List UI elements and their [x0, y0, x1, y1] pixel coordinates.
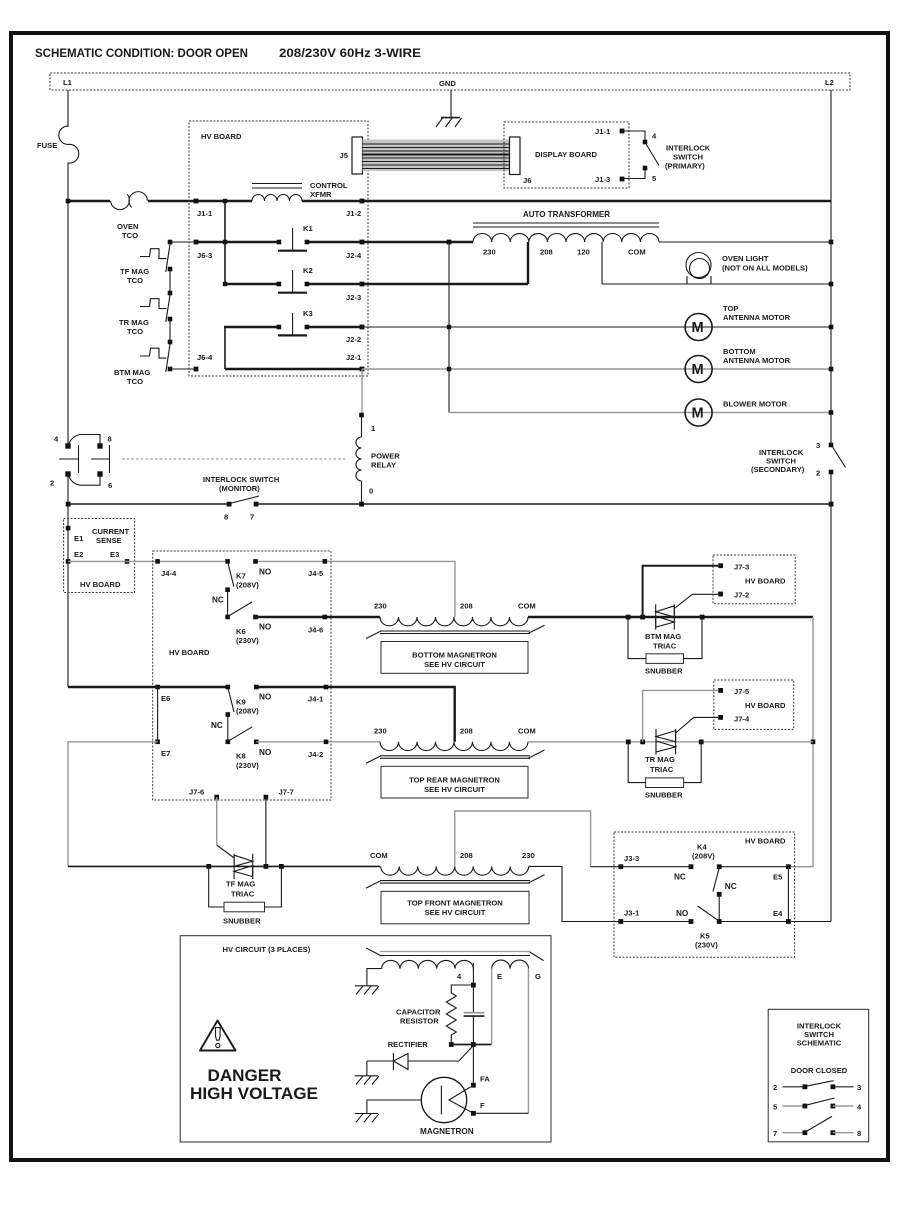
- svg-text:TCO: TCO: [127, 276, 143, 285]
- svg-text:BTM MAG: BTM MAG: [114, 368, 150, 377]
- svg-text:8: 8: [224, 513, 228, 522]
- svg-text:J7-3: J7-3: [734, 563, 749, 572]
- svg-text:8: 8: [108, 435, 112, 444]
- interlock switch (primary): [622, 131, 645, 179]
- svg-text:230: 230: [483, 248, 496, 257]
- snubber (TF): [209, 866, 282, 907]
- wire left vertical k-bus: [224, 201, 226, 284]
- svg-text:E7: E7: [161, 749, 170, 758]
- svg-text:NO: NO: [259, 748, 272, 757]
- svg-text:NO: NO: [259, 623, 272, 632]
- connector J5: [352, 137, 363, 174]
- HV transformer core: [366, 948, 543, 961]
- svg-text:RELAY: RELAY: [371, 461, 396, 470]
- pin J2-3: [360, 282, 365, 287]
- svg-text:NO: NO: [676, 909, 689, 918]
- svg-text:HV BOARD: HV BOARD: [169, 648, 210, 657]
- pin J2-4: [360, 240, 365, 245]
- wire 208 tap down: [527, 242, 529, 284]
- wire J7-7 link: [265, 797, 267, 866]
- svg-text:(MONITOR): (MONITOR): [219, 484, 260, 493]
- wire L1 drop: [67, 90, 69, 127]
- pin F: [473, 1112, 528, 1114]
- svg-text:NC: NC: [212, 596, 224, 605]
- svg-text:J2-3: J2-3: [346, 293, 361, 302]
- svg-text:TR MAG: TR MAG: [645, 755, 675, 764]
- relay K7: [225, 559, 230, 564]
- svg-text:NC: NC: [211, 721, 223, 730]
- svg-text:E4: E4: [773, 909, 783, 918]
- HV board box J7-5/J7-4: [714, 680, 794, 729]
- interlock switch (monitor) on 504 line: [68, 503, 831, 505]
- svg-text:J7-5: J7-5: [734, 687, 750, 696]
- svg-text:TRIAC: TRIAC: [650, 765, 674, 774]
- svg-text:J7-6: J7-6: [189, 788, 204, 797]
- svg-text:J6-4: J6-4: [197, 353, 213, 362]
- svg-text:J7-2: J7-2: [734, 591, 749, 600]
- svg-text:COM: COM: [370, 851, 388, 860]
- top front magnetron transformer coil: [381, 866, 529, 875]
- wire COM line TR: [528, 741, 813, 743]
- svg-text:J7-7: J7-7: [279, 788, 294, 797]
- svg-text:0: 0: [369, 487, 373, 496]
- svg-text:K1: K1: [303, 224, 313, 233]
- magnetron V1: [421, 1077, 466, 1122]
- top rear magnetron transformer coil: [380, 742, 528, 751]
- svg-text:J1-1: J1-1: [595, 127, 611, 136]
- display board box: [504, 122, 629, 188]
- pin J7-6: [214, 795, 219, 800]
- svg-text:SEE HV CIRCUIT: SEE HV CIRCUIT: [425, 908, 486, 917]
- svg-text:J4-1: J4-1: [308, 695, 324, 704]
- HV secondary coil: [382, 960, 474, 968]
- wire J2-4 feed vertical: [448, 242, 450, 413]
- interlock switch (monitor section 4-8-2-6): [65, 443, 70, 448]
- svg-text:NO: NO: [259, 568, 272, 577]
- svg-text:COM: COM: [518, 727, 536, 736]
- svg-text:CAPACITOR: CAPACITOR: [396, 1008, 441, 1017]
- wire G filament drop: [527, 969, 529, 1114]
- pin J2-1: [360, 367, 365, 372]
- top front magnetron label box: [381, 891, 529, 924]
- motor bottom antenna: [685, 356, 712, 383]
- pin J2-2: [360, 325, 365, 330]
- svg-text:HV BOARD: HV BOARD: [745, 837, 786, 846]
- wire J7-6 gate link: [216, 797, 218, 845]
- wire junction to E: [451, 1044, 491, 1046]
- svg-text:M: M: [692, 406, 704, 422]
- svg-text:TR MAG: TR MAG: [119, 318, 149, 327]
- wire terminal 4 drop: [472, 963, 474, 985]
- snubber (BTM): [628, 617, 702, 659]
- svg-text:TCO: TCO: [127, 327, 143, 336]
- svg-text:230: 230: [374, 727, 387, 736]
- wire oven light line: [602, 283, 831, 285]
- svg-text:TCO: TCO: [127, 377, 143, 386]
- svg-text:J4-4: J4-4: [161, 569, 177, 578]
- svg-text:HIGH VOLTAGE: HIGH VOLTAGE: [190, 1085, 318, 1103]
- svg-text:SWITCH: SWITCH: [673, 153, 703, 162]
- wire J3-3 line: [591, 866, 691, 868]
- svg-text:CURRENT: CURRENT: [92, 527, 129, 536]
- wire secondary left to ground: [367, 969, 382, 986]
- svg-text:J6-3: J6-3: [197, 251, 212, 260]
- BTM MAG TCO: [140, 348, 167, 358]
- svg-text:J4-5: J4-5: [308, 569, 324, 578]
- ground (magnetron): [355, 1114, 379, 1123]
- triac BTM MAG: [656, 604, 675, 629]
- svg-text:8: 8: [857, 1129, 861, 1138]
- svg-text:230: 230: [374, 602, 387, 611]
- pin E5: [786, 864, 791, 869]
- svg-text:K3: K3: [303, 309, 313, 318]
- snubber (TR): [628, 742, 701, 783]
- svg-text:K2: K2: [303, 266, 313, 275]
- svg-text:SNUBBER: SNUBBER: [645, 791, 683, 800]
- svg-text:TRIAC: TRIAC: [653, 642, 677, 651]
- svg-text:6: 6: [108, 481, 112, 490]
- svg-text:120: 120: [577, 248, 590, 257]
- svg-text:K8: K8: [236, 752, 246, 761]
- svg-text:(208V): (208V): [236, 581, 259, 590]
- wire COM to L2: [659, 241, 831, 243]
- pin J4-4: [155, 559, 160, 564]
- svg-text:TCO: TCO: [122, 231, 138, 240]
- svg-text:BTM MAG: BTM MAG: [645, 632, 681, 641]
- svg-text:230: 230: [522, 851, 535, 860]
- svg-text:SCHEMATIC CONDITION: DOOR OPEN: SCHEMATIC CONDITION: DOOR OPEN: [35, 46, 248, 60]
- filament winding: [492, 960, 529, 969]
- svg-text:HV BOARD: HV BOARD: [745, 701, 786, 710]
- wire power relay drop: [361, 369, 363, 415]
- svg-text:208: 208: [460, 851, 473, 860]
- svg-text:BOTTOM: BOTTOM: [723, 347, 756, 356]
- top rear magnetron label box: [381, 766, 528, 798]
- HV board box K4/K5: [614, 832, 795, 957]
- svg-text:TRIAC: TRIAC: [231, 890, 255, 899]
- relay K5: [717, 919, 722, 924]
- svg-text:K9: K9: [236, 698, 246, 707]
- svg-text:NC: NC: [725, 882, 737, 891]
- svg-text:OVEN LIGHT: OVEN LIGHT: [722, 254, 769, 263]
- svg-text:(SECONDARY): (SECONDARY): [751, 465, 805, 474]
- wire E7 return: [68, 742, 158, 867]
- svg-text:BLOWER MOTOR: BLOWER MOTOR: [723, 400, 787, 409]
- svg-text:ANTENNA MOTOR: ANTENNA MOTOR: [723, 356, 791, 365]
- svg-text:J2-4: J2-4: [346, 251, 362, 260]
- control transformer core: [252, 184, 302, 189]
- wire 208 tap to J3-3: [455, 811, 591, 867]
- svg-text:NC: NC: [674, 873, 686, 882]
- svg-text:TF MAG: TF MAG: [226, 880, 255, 889]
- HV board box (top): [189, 121, 368, 376]
- ground (chassis): [441, 117, 460, 119]
- current sense box: [64, 519, 135, 593]
- wire E5-E4: [787, 867, 789, 922]
- svg-text:SCHEMATIC: SCHEMATIC: [797, 1039, 842, 1048]
- svg-text:L1: L1: [63, 78, 73, 87]
- svg-text:J1-1: J1-1: [197, 209, 213, 218]
- ground (rectifier): [366, 1061, 368, 1076]
- svg-text:COM: COM: [628, 248, 646, 257]
- svg-text:XFMR: XFMR: [310, 190, 332, 199]
- wire J7-5 link: [643, 690, 718, 741]
- svg-text:(NOT ON ALL MODELS): (NOT ON ALL MODELS): [722, 264, 808, 273]
- svg-text:J6: J6: [523, 176, 531, 185]
- svg-text:HV BOARD: HV BOARD: [201, 132, 242, 141]
- svg-text:G: G: [535, 972, 541, 981]
- pin J6-3: [194, 240, 199, 245]
- wire E filament drop: [491, 969, 493, 1045]
- svg-text:SEE HV CIRCUIT: SEE HV CIRCUIT: [424, 785, 485, 794]
- node main-xfmr junction: [447, 240, 452, 245]
- svg-text:K5: K5: [700, 932, 710, 941]
- svg-text:SNUBBER: SNUBBER: [223, 917, 261, 926]
- svg-text:2: 2: [50, 479, 54, 488]
- HV circuit detail box: [180, 936, 551, 1142]
- triac TF MAG: [234, 854, 253, 879]
- svg-text:J2-2: J2-2: [346, 335, 361, 344]
- motor blower: [685, 399, 712, 426]
- svg-text:MAGNETRON: MAGNETRON: [420, 1127, 474, 1136]
- relay K1: [196, 241, 473, 243]
- svg-text:POWER: POWER: [371, 452, 400, 461]
- svg-text:M: M: [692, 362, 704, 378]
- wire main line y=201: [68, 200, 831, 202]
- mechanical link dashes: [122, 458, 345, 460]
- svg-text:(PRIMARY): (PRIMARY): [665, 162, 705, 171]
- svg-text:SENSE: SENSE: [96, 536, 122, 545]
- svg-text:(230V): (230V): [236, 761, 259, 770]
- svg-text:FUSE: FUSE: [37, 141, 57, 150]
- svg-text:DISPLAY BOARD: DISPLAY BOARD: [535, 150, 598, 159]
- oven TCO: [111, 192, 148, 210]
- bottom magnetron label box: [381, 642, 528, 674]
- svg-text:3: 3: [816, 441, 820, 450]
- svg-text:J4-6: J4-6: [308, 626, 323, 635]
- svg-text:(230V): (230V): [236, 636, 259, 645]
- wire J3-1 line: [618, 919, 623, 924]
- svg-text:RESISTOR: RESISTOR: [400, 1017, 439, 1026]
- svg-text:J1-3: J1-3: [595, 175, 610, 184]
- wire L2 bus drop: [830, 90, 832, 922]
- wire J4-1 line: [256, 687, 454, 742]
- connector J6: [510, 137, 521, 175]
- TCO chain dots: [168, 240, 173, 245]
- wire E2-E3 / J4-4 line: [68, 560, 228, 562]
- wire bottom antenna motor line: [362, 368, 831, 370]
- svg-text:DOOR CLOSED: DOOR CLOSED: [791, 1066, 848, 1075]
- power relay coil: [359, 413, 364, 418]
- HV board box (K7 K6 K9 K8): [153, 551, 331, 800]
- wire magnetron anode to ground: [367, 1100, 421, 1114]
- relay K9: [226, 685, 231, 690]
- svg-text:J3-3: J3-3: [624, 854, 639, 863]
- svg-text:F: F: [480, 1101, 485, 1110]
- svg-text:208: 208: [460, 727, 473, 736]
- svg-text:FA: FA: [480, 1075, 490, 1084]
- svg-text:RECTIFIER: RECTIFIER: [388, 1040, 429, 1049]
- svg-text:E: E: [497, 972, 502, 981]
- node J1-2: [360, 199, 365, 204]
- pin E6: [155, 685, 160, 690]
- svg-text:208: 208: [540, 248, 553, 257]
- wire GND drop: [450, 90, 452, 118]
- svg-text:(208V): (208V): [236, 707, 259, 716]
- control transformer coil: [252, 195, 302, 201]
- svg-text:E3: E3: [110, 550, 119, 559]
- pin FA: [471, 1083, 476, 1088]
- svg-text:2: 2: [773, 1083, 777, 1092]
- wire FA drop: [472, 1045, 474, 1086]
- svg-text:E6: E6: [161, 694, 170, 703]
- relay K3: [224, 327, 226, 369]
- wire E6-E7 shunt: [157, 687, 159, 742]
- svg-text:K4: K4: [697, 843, 707, 852]
- pin J7-7: [264, 795, 269, 800]
- svg-text:E5: E5: [773, 873, 783, 882]
- svg-text:SEE HV CIRCUIT: SEE HV CIRCUIT: [424, 660, 485, 669]
- wire J4-6 line: [256, 616, 381, 618]
- svg-text:TOP FRONT MAGNETRON: TOP FRONT MAGNETRON: [407, 899, 503, 908]
- wire top antenna motor line: [362, 326, 831, 328]
- svg-text:E1: E1: [74, 534, 84, 543]
- wire 120 tap down: [601, 242, 603, 284]
- svg-text:GND: GND: [439, 79, 456, 88]
- svg-text:J7-4: J7-4: [734, 715, 750, 724]
- relay K6: [225, 615, 230, 620]
- svg-text:208/230V 60Hz 3-WIRE: 208/230V 60Hz 3-WIRE: [279, 46, 421, 60]
- wire J4-5 line: [256, 561, 456, 617]
- wire L2 drop to E5: [788, 617, 813, 867]
- svg-text:J5: J5: [340, 151, 349, 160]
- svg-text:208: 208: [460, 602, 473, 611]
- HV board box J7-3/J7-2: [713, 555, 795, 604]
- wire TF MAG line: [68, 865, 380, 867]
- svg-text:HV BOARD: HV BOARD: [80, 580, 121, 589]
- svg-text:CONTROL: CONTROL: [310, 181, 348, 190]
- interlock primary blade: [646, 143, 660, 166]
- svg-text:(208V): (208V): [692, 852, 715, 861]
- wire E6 line: [68, 686, 228, 688]
- svg-text:L2: L2: [825, 78, 834, 87]
- svg-text:INTERLOCK SWITCH: INTERLOCK SWITCH: [203, 475, 279, 484]
- svg-text:NO: NO: [259, 693, 272, 702]
- svg-text:E2: E2: [74, 550, 83, 559]
- svg-text:M: M: [692, 320, 704, 336]
- svg-text:SNUBBER: SNUBBER: [645, 667, 683, 676]
- svg-text:TF MAG: TF MAG: [120, 267, 149, 276]
- svg-text:7: 7: [773, 1129, 777, 1138]
- wire J7-2 gate: [674, 594, 718, 608]
- ribbon cable: [363, 140, 510, 172]
- svg-text:(230V): (230V): [695, 941, 718, 950]
- wire J7-4 gate: [676, 717, 718, 733]
- svg-text:DANGER: DANGER: [208, 1067, 282, 1085]
- top supply bus dashed box: [50, 73, 850, 90]
- ground (HV secondary): [355, 986, 379, 995]
- svg-text:TOP: TOP: [723, 304, 738, 313]
- svg-text:AUTO TRANSFORMER: AUTO TRANSFORMER: [523, 210, 610, 219]
- wire blower motor line: [449, 412, 831, 414]
- motor top antenna: [685, 314, 712, 341]
- capacitor C: [472, 985, 474, 1045]
- resistor R: [446, 985, 473, 1045]
- TF MAG TCO: [140, 249, 167, 259]
- svg-text:TOP REAR MAGNETRON: TOP REAR MAGNETRON: [409, 776, 500, 785]
- triac TR MAG: [656, 729, 676, 754]
- svg-text:J2-1: J2-1: [346, 353, 362, 362]
- svg-text:OVEN: OVEN: [117, 222, 139, 231]
- svg-text:HV BOARD: HV BOARD: [745, 577, 786, 586]
- node J1-1 main dot: [194, 199, 199, 204]
- pin E4: [786, 919, 791, 924]
- wire J4-2 line: [256, 741, 380, 743]
- wire J2-1 line: [225, 368, 362, 370]
- svg-text:7: 7: [250, 513, 254, 522]
- TR MAG TCO: [140, 299, 167, 309]
- svg-text:COM: COM: [518, 602, 536, 611]
- svg-text:INTERLOCK: INTERLOCK: [666, 144, 711, 153]
- svg-text:ANTENNA MOTOR: ANTENNA MOTOR: [723, 313, 791, 322]
- svg-text:J4-2: J4-2: [308, 750, 323, 759]
- oven light lamp: [686, 253, 711, 285]
- relay K2: [224, 283, 528, 285]
- svg-text:BOTTOM MAGNETRON: BOTTOM MAGNETRON: [412, 651, 497, 660]
- wire COM line to L2 drop: [528, 616, 813, 618]
- bottom magnetron transformer coil: [380, 617, 528, 626]
- interlock switch schematic box: [768, 1009, 869, 1142]
- warning triangle: [200, 1021, 236, 1051]
- pin J6-4: [194, 367, 199, 372]
- svg-text:3: 3: [857, 1083, 861, 1092]
- relay K8: [226, 740, 231, 745]
- wire left line fuse to interlock: [67, 201, 69, 446]
- pin E7: [155, 740, 160, 745]
- interlock switch (secondary): [829, 443, 834, 448]
- wire TCO feeds: [170, 242, 196, 369]
- svg-text:K6: K6: [236, 627, 246, 636]
- svg-text:HV CIRCUIT (3 PLACES): HV CIRCUIT (3 PLACES): [223, 945, 311, 954]
- fuse F1: [59, 126, 79, 201]
- svg-text:2: 2: [816, 469, 820, 478]
- wire J7-3 link: [643, 566, 718, 617]
- svg-text:K7: K7: [236, 572, 246, 581]
- svg-text:J1-2: J1-2: [346, 209, 361, 218]
- wire 230 end to J3-1: [529, 866, 691, 921]
- wire left line below interlock: [67, 474, 69, 687]
- svg-text:J3-1: J3-1: [624, 909, 640, 918]
